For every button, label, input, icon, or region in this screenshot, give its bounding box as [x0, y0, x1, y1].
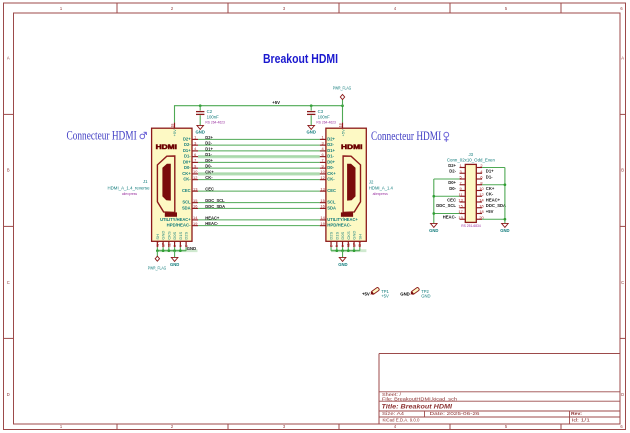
svg-text:D0-: D0- — [184, 165, 191, 170]
male symbol — [140, 132, 147, 139]
pin stub J3 left 1 — [460, 167, 466, 169]
wire D2+ — [198, 138, 320, 140]
svg-text:DDC_SCL: DDC_SCL — [205, 198, 225, 203]
pin stub J1 D2- — [192, 144, 198, 146]
svg-text:GND: GND — [500, 228, 509, 233]
svg-text:UTILITY/HEAC+: UTILITY/HEAC+ — [327, 217, 358, 222]
junction J3 right 1 — [504, 183, 507, 186]
svg-text:CK+: CK+ — [486, 186, 495, 191]
svg-text:HDMI: HDMI — [341, 144, 363, 151]
pin stub J3 right 4 — [476, 172, 482, 174]
pin stub J3 right 20 — [476, 218, 482, 220]
svg-text:SH: SH — [357, 234, 362, 240]
title block line mid — [379, 416, 620, 418]
pin stub J1 HEAC- — [192, 225, 198, 227]
junction J1 shield bus — [168, 249, 171, 252]
pin stub J3 right 18 — [476, 213, 482, 215]
wire CK+ pale — [198, 173, 320, 175]
svg-text:GND: GND — [421, 293, 430, 298]
wire D2- — [198, 144, 320, 146]
capacitor C3 plate2 — [307, 113, 315, 115]
svg-text:CEC: CEC — [447, 197, 456, 202]
svg-text:18: 18 — [170, 124, 174, 128]
svg-text:HEAC+: HEAC+ — [205, 215, 220, 220]
svg-text:D1-: D1- — [205, 152, 212, 157]
svg-text:HDMI: HDMI — [156, 144, 178, 151]
wire J1 bottom D1S — [179, 247, 181, 251]
wire highlight halo D1- — [198, 155, 320, 158]
svg-text:RS 264-4623: RS 264-4623 — [205, 120, 225, 124]
svg-text:aliexpress: aliexpress — [122, 192, 138, 196]
svg-text:+5V: +5V — [172, 129, 177, 137]
svg-text:HPD/HEAC-: HPD/HEAC- — [167, 223, 192, 228]
svg-text:C: C — [7, 280, 10, 285]
svg-text:15: 15 — [458, 203, 462, 208]
svg-text:CKS: CKS — [346, 231, 351, 240]
svg-text:HEAC-: HEAC- — [205, 221, 219, 226]
pin stub J3 left 15 — [460, 207, 466, 209]
pin stub J2 HEAC+ — [320, 219, 326, 221]
svg-text:CK-: CK- — [183, 177, 191, 182]
svg-text:3: 3 — [322, 140, 324, 145]
svg-text:DDC_SDA: DDC_SDA — [486, 203, 506, 208]
svg-text:D0S: D0S — [340, 231, 345, 239]
svg-text:HEAC+: HEAC+ — [486, 197, 501, 202]
svg-text:D1+: D1+ — [486, 169, 494, 174]
pin stub J1 CK- — [192, 179, 198, 181]
wire J3 right row 1 — [482, 167, 505, 169]
frame tick left 1 — [4, 225, 14, 227]
testpoint TP2 symbol — [409, 287, 419, 296]
svg-text:PWR_FLAG: PWR_FLAG — [148, 265, 167, 270]
svg-text:GND: GND — [400, 291, 410, 296]
svg-text:RS 251-6834: RS 251-6834 — [461, 224, 481, 228]
pin stub J2 D0- — [320, 167, 326, 169]
junction J2 shield bus — [335, 249, 338, 252]
ground below C3 — [308, 125, 315, 129]
svg-text:19: 19 — [193, 221, 197, 226]
pin stub J3 left 19 — [460, 218, 466, 220]
wire J1 bottom GND — [162, 247, 164, 251]
capacitor C3 top lead — [310, 106, 312, 111]
wire J1 bottom SH — [156, 247, 158, 251]
title block line below title — [379, 410, 620, 412]
svg-text:1: 1 — [460, 163, 462, 168]
svg-text:6: 6 — [322, 152, 324, 157]
svg-text:Connecteur HDMI: Connecteur HDMI — [67, 129, 137, 143]
pin stub J3 right 12 — [476, 195, 482, 197]
svg-text:CK+: CK+ — [182, 171, 191, 176]
frame tick left 2 — [4, 337, 14, 339]
svg-text:SCL: SCL — [182, 200, 191, 205]
svg-text:Date: 2025-06-26: Date: 2025-06-26 — [430, 411, 481, 416]
pin stub J3 right 16 — [476, 207, 482, 209]
svg-text:CK-: CK- — [205, 175, 213, 180]
svg-text:15: 15 — [320, 198, 324, 203]
svg-text:+5V: +5V — [272, 100, 280, 105]
svg-text:Title: Breakout HDMI: Title: Breakout HDMI — [382, 404, 453, 411]
pin stub J2 bottom D0S — [342, 241, 344, 247]
svg-text:13: 13 — [458, 198, 462, 203]
pin stub J2 bottom CKS — [347, 241, 349, 247]
wire J2 bottom D2S — [330, 247, 332, 251]
capacitor C2 plate1 — [196, 111, 204, 113]
wire J3 left row 9 — [434, 213, 460, 215]
title block divider rev — [569, 411, 571, 424]
wire D0- — [198, 167, 320, 169]
pin stub J1 bottom D1S — [179, 241, 181, 247]
svg-text:7: 7 — [322, 158, 324, 163]
pin stub J1 bottom D2S — [185, 241, 187, 247]
wire J1 bottom D0S — [174, 247, 176, 251]
svg-text:11: 11 — [347, 243, 351, 247]
frame tick bottom 4 — [560, 424, 562, 430]
ground below J1 — [171, 257, 178, 261]
svg-text:D1-: D1- — [327, 154, 334, 159]
connector J2 body — [326, 128, 366, 241]
wire J3 left row 6 — [434, 195, 460, 197]
svg-text:8: 8 — [341, 245, 345, 247]
svg-text:12: 12 — [193, 175, 197, 180]
frame tick top 1 — [227, 3, 229, 13]
svg-text:HEAC-: HEAC- — [443, 215, 457, 220]
pin stub J3 left 9 — [460, 190, 466, 192]
wire J2 bottom SH — [359, 247, 361, 251]
pin stub J1 CEC — [192, 190, 198, 192]
svg-text:SDA: SDA — [327, 205, 336, 210]
svg-text:6: 6 — [480, 175, 482, 180]
svg-text:D0+: D0+ — [327, 159, 335, 164]
pin stub J2 bottom GND — [353, 241, 355, 247]
pin stub J1 bottom D0S — [174, 241, 176, 247]
svg-text:D2+: D2+ — [327, 136, 335, 141]
svg-text:7: 7 — [460, 180, 462, 185]
pin stub J3 left 3 — [460, 172, 466, 174]
pin stub J1 CK+ — [192, 173, 198, 175]
svg-text:5: 5 — [335, 245, 339, 247]
svg-text:6: 6 — [194, 152, 196, 157]
svg-text:D2+: D2+ — [205, 135, 213, 140]
connector J1 plug tab — [165, 212, 177, 216]
frame tick top 3 — [449, 3, 451, 13]
svg-text:J1: J1 — [143, 179, 148, 184]
svg-text:SCL: SCL — [327, 200, 336, 205]
pin stub J2 D2+ — [320, 138, 326, 140]
wire highlight halo CK+ — [198, 172, 320, 175]
svg-text:D1-: D1- — [184, 154, 191, 159]
svg-text:GND: GND — [187, 246, 196, 251]
svg-text:Rev:: Rev: — [571, 411, 583, 416]
svg-text:+5V: +5V — [486, 209, 494, 214]
svg-text:13: 13 — [193, 186, 197, 191]
ground below J2 — [339, 257, 346, 261]
svg-text:9: 9 — [322, 163, 324, 168]
frame tick bottom 1 — [227, 424, 229, 430]
title block divider size/date — [424, 411, 426, 417]
svg-text:CEC: CEC — [182, 188, 191, 193]
wire HEAC+ — [198, 219, 320, 221]
svg-text:D0-: D0- — [449, 186, 456, 191]
pin stub J1 D1- — [192, 156, 198, 158]
svg-text:12: 12 — [320, 175, 324, 180]
svg-text:D1S: D1S — [334, 231, 339, 239]
svg-text:CK-: CK- — [327, 177, 335, 182]
svg-text:D2-: D2- — [327, 142, 334, 147]
wire DDC_SDA — [198, 207, 320, 209]
svg-text:12: 12 — [479, 192, 483, 197]
wire J1 bottom CKS — [168, 247, 170, 251]
svg-text:HDMI_A_1.4: HDMI_A_1.4 — [369, 185, 394, 190]
wire J3 left row 3 — [434, 178, 460, 180]
pin stub J2 CEC — [320, 190, 326, 192]
wire CK- — [198, 179, 320, 181]
svg-text:5: 5 — [179, 245, 183, 247]
svg-text:3: 3 — [194, 140, 196, 145]
svg-text:D2+: D2+ — [448, 163, 456, 168]
svg-text:17: 17 — [352, 243, 356, 247]
junction J2 shield bus — [341, 249, 344, 252]
wire CEC — [198, 190, 320, 192]
junction PWR_FLAG — [341, 104, 344, 107]
pin stub J2 CK- — [320, 179, 326, 181]
svg-text:Breakout HDMI: Breakout HDMI — [263, 51, 338, 66]
frame tick right 1 — [620, 225, 626, 227]
svg-text:8: 8 — [173, 245, 177, 247]
ground wire below J1 — [174, 251, 176, 258]
ground below J3 left — [431, 223, 438, 227]
pin stub J2 CK+ — [320, 173, 326, 175]
svg-text:GND: GND — [352, 231, 357, 240]
pin stub J3 left 17 — [460, 213, 466, 215]
capacitor C2 top lead — [199, 106, 201, 111]
junction J3 left 2 — [432, 212, 435, 215]
pin stub J3 right 6 — [476, 178, 482, 180]
pin stub J2 DDC_SDA — [320, 207, 326, 209]
wire J3 right row 10 — [482, 218, 505, 220]
pin stub J2 bottom D1S — [336, 241, 338, 247]
pin stub J3 left 7 — [460, 184, 466, 186]
connector J3 body — [465, 164, 476, 222]
svg-text:GND: GND — [307, 130, 316, 135]
svg-text:HPD/HEAC-: HPD/HEAC- — [327, 223, 352, 228]
svg-text:19: 19 — [320, 221, 324, 226]
power flag bottom circle — [155, 256, 159, 261]
svg-text:D1+: D1+ — [183, 148, 191, 153]
pin stub J3 right 2 — [476, 167, 482, 169]
pin stub J1 bottom SH — [156, 241, 158, 247]
frame tick left 0 — [4, 113, 14, 115]
svg-text:CKS: CKS — [166, 231, 171, 240]
svg-text:Size: A4: Size: A4 — [382, 411, 405, 416]
svg-text:D0+: D0+ — [183, 159, 191, 164]
svg-text:C3: C3 — [318, 109, 324, 114]
wire D0+ — [198, 161, 320, 163]
svg-text:C: C — [621, 280, 624, 285]
svg-text:D1-: D1- — [486, 174, 493, 179]
svg-text:13: 13 — [320, 186, 324, 191]
wire J2 shield bus — [331, 250, 360, 252]
junction J3 right 2 — [504, 218, 507, 221]
svg-text:19: 19 — [458, 215, 462, 220]
ground below C2 — [197, 125, 204, 129]
svg-text:3: 3 — [460, 169, 462, 174]
pin stub J2 HEAC- — [320, 225, 326, 227]
svg-text:B: B — [621, 168, 624, 173]
pin stub J3 right 14 — [476, 201, 482, 203]
svg-text:CK+: CK+ — [205, 169, 214, 174]
frame tick top 0 — [116, 3, 118, 13]
svg-text:11: 11 — [167, 243, 171, 247]
frame tick right 0 — [620, 113, 626, 115]
svg-text:GND: GND — [161, 231, 166, 240]
svg-text:D0S: D0S — [172, 231, 177, 239]
svg-text:HDMI_A_1.4_reverse: HDMI_A_1.4_reverse — [108, 185, 151, 190]
pin stub J2 D2- — [320, 144, 326, 146]
junction J1 shield bus — [173, 249, 176, 252]
svg-text:D: D — [7, 392, 10, 397]
svg-text:B: B — [7, 168, 10, 173]
title block outline — [379, 354, 620, 425]
wire J3 right row 4 — [482, 184, 505, 186]
svg-text:1: 1 — [194, 135, 196, 140]
junction J2 shield bus — [353, 249, 356, 252]
svg-text:D1S: D1S — [178, 231, 183, 239]
svg-text:D0+: D0+ — [448, 180, 456, 185]
wire +5V rail — [175, 106, 343, 123]
svg-text:SH: SH — [358, 242, 362, 247]
svg-text:9: 9 — [460, 186, 462, 191]
svg-text:+5V: +5V — [340, 129, 345, 137]
svg-text:7: 7 — [194, 158, 196, 163]
svg-text:D0-: D0- — [205, 164, 212, 169]
pin stub J2 D1- — [320, 156, 326, 158]
capacitor C3 plate1 — [307, 111, 315, 113]
svg-text:SDA: SDA — [182, 205, 191, 210]
svg-text:D1+: D1+ — [205, 146, 213, 151]
svg-text:+5V: +5V — [381, 293, 389, 298]
svg-text:Connecteur HDMI: Connecteur HDMI — [371, 129, 441, 143]
frame tick top 2 — [338, 3, 340, 13]
pin stub J1 D0- — [192, 167, 198, 169]
female symbol — [444, 132, 449, 142]
pin stub J1 DDC_SDA — [192, 207, 198, 209]
svg-text:16: 16 — [479, 203, 483, 208]
svg-text:Id: 1/1: Id: 1/1 — [572, 418, 591, 423]
pin stub J2 D1+ — [320, 150, 326, 152]
pin stub J1 DDC_SCL — [192, 202, 198, 204]
wire J2 bottom CKS — [347, 247, 349, 251]
svg-text:GND: GND — [170, 262, 179, 267]
pin stub J3 right 8 — [476, 184, 482, 186]
wire D1- pale — [198, 156, 320, 158]
svg-text:A: A — [621, 56, 624, 61]
svg-text:UTILITY/HEAC+: UTILITY/HEAC+ — [160, 217, 191, 222]
wire J3 right vertical — [504, 168, 506, 224]
pin stub J3 left 13 — [460, 201, 466, 203]
wire D1+ — [198, 150, 320, 152]
connector J1 body — [152, 128, 192, 241]
svg-text:2: 2 — [329, 245, 333, 247]
junction J3 left 1 — [432, 195, 435, 198]
svg-text:D0+: D0+ — [205, 158, 213, 163]
pin stub J2 bottom SH — [359, 241, 361, 247]
svg-text:DDC_SDA: DDC_SDA — [205, 204, 225, 209]
wire J2 shield bus halo — [331, 249, 366, 252]
svg-text:+5V: +5V — [362, 291, 370, 296]
pin stub J3 left 5 — [460, 178, 466, 180]
svg-text:18: 18 — [479, 209, 483, 214]
ground below J3 right — [502, 223, 509, 227]
connector J2 plug inner — [347, 164, 355, 201]
title block line above sheet — [379, 391, 620, 393]
pin stub J1 bottom CKS — [168, 241, 170, 247]
connector J1 plug inner — [162, 164, 170, 201]
wire J3 left vertical — [433, 179, 435, 223]
svg-text:15: 15 — [193, 198, 197, 203]
svg-text:16: 16 — [320, 204, 324, 209]
wire J1 shield bus — [157, 250, 186, 252]
svg-text:100nF: 100nF — [207, 115, 220, 120]
connector J1 plug outline — [157, 156, 174, 212]
svg-text:CK+: CK+ — [327, 171, 336, 176]
power flag bottom wire — [156, 251, 158, 257]
capacitor C2 plate2 — [196, 113, 204, 115]
frame tick right 2 — [620, 337, 626, 339]
testpoint TP1 symbol — [369, 287, 379, 296]
junction C2 top — [199, 104, 202, 107]
svg-text:D2S: D2S — [329, 231, 334, 239]
svg-text:C2: C2 — [207, 109, 213, 114]
frame tick bottom 2 — [338, 424, 340, 430]
svg-text:aliexpress: aliexpress — [373, 192, 389, 196]
connector J2 plug outline — [343, 156, 360, 212]
svg-text:DDC_SCL: DDC_SCL — [436, 203, 456, 208]
svg-text:D2S: D2S — [184, 231, 189, 239]
connector J2 top +5V pin — [342, 123, 344, 129]
svg-text:100nF: 100nF — [318, 115, 331, 120]
svg-text:PWR_FLAG: PWR_FLAG — [333, 86, 352, 91]
title block line above title — [379, 400, 620, 402]
junction J1 shield bus — [162, 249, 165, 252]
power flag top circle — [340, 94, 344, 99]
junction C3 top — [310, 104, 313, 107]
svg-text:5: 5 — [460, 175, 462, 180]
junction J1 shield bus — [179, 249, 182, 252]
svg-text:D2+: D2+ — [183, 136, 191, 141]
svg-text:A: A — [7, 56, 10, 61]
capacitor C2 bottom lead — [199, 115, 201, 125]
svg-text:CK-: CK- — [486, 192, 494, 197]
wire J2 bottom GND — [353, 247, 355, 251]
pin stub J1 D1+ — [192, 150, 198, 152]
frame tick bottom 3 — [449, 424, 451, 430]
svg-text:GND: GND — [429, 228, 438, 233]
connector J2 plug tab — [341, 212, 353, 216]
svg-text:D: D — [621, 392, 624, 397]
junction J2 shield bus — [347, 249, 350, 252]
svg-text:18: 18 — [338, 123, 342, 127]
pin stub J1 bottom GND — [162, 241, 164, 247]
wire J2 bottom D0S — [342, 247, 344, 251]
pin stub J3 right 10 — [476, 190, 482, 192]
pin stub J1 HEAC+ — [192, 219, 198, 221]
svg-text:Conn_02x10_Odd_Even: Conn_02x10_Odd_Even — [447, 157, 496, 162]
pin stub J2 bottom D2S — [330, 241, 332, 247]
power flag top symbol — [342, 100, 344, 106]
capacitor C3 bottom lead — [310, 115, 312, 125]
svg-text:17: 17 — [162, 243, 166, 247]
svg-text:D2-: D2- — [205, 141, 212, 146]
